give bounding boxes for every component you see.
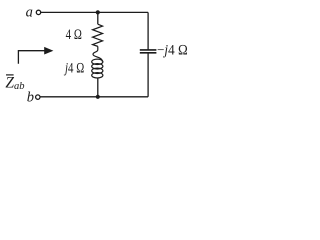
resistor 4ohm (zigzag) — [93, 24, 103, 46]
terminal b circle — [36, 95, 40, 99]
terminal a circle — [36, 10, 40, 14]
svg-text:b: b — [27, 89, 34, 105]
arrow for Zab (elbow with arrowhead) — [18, 51, 45, 64]
wire: bottom lead of middle branch — [97, 78, 99, 97]
capacitor -j4ohm (plates) — [140, 49, 157, 51]
inductor j4ohm (coil) — [92, 46, 103, 78]
impedance label Zab with overbar — [6, 74, 14, 76]
wire: right branch vertical, bottom lead — [147, 53, 149, 97]
node: top junction dot — [96, 10, 100, 14]
wire: bottom rail from b to right corner — [40, 96, 148, 98]
svg-text:−j4 Ω: −j4 Ω — [157, 43, 188, 59]
wire: right branch vertical, top lead — [147, 12, 149, 50]
svg-text:ab: ab — [14, 81, 25, 92]
svg-text:4 Ω: 4 Ω — [66, 27, 83, 43]
svg-text:j4 Ω: j4 Ω — [64, 61, 85, 77]
svg-text:a: a — [26, 5, 33, 21]
wire: top rail from a to right corner — [41, 11, 148, 13]
node: bottom junction dot — [96, 95, 100, 99]
wire: top lead of middle branch — [97, 12, 99, 24]
